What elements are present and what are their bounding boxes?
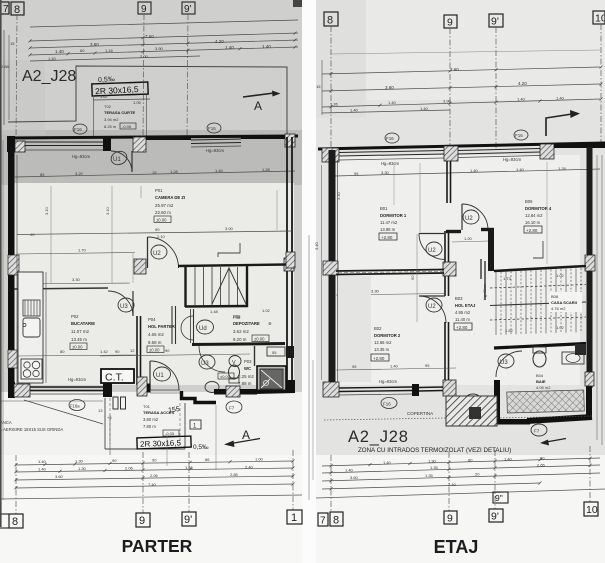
stairs bottom wall <box>494 344 586 349</box>
svg-text:60: 60 <box>80 48 85 53</box>
svg-text:1.26: 1.26 <box>330 102 339 107</box>
canopy hatched square <box>446 396 497 426</box>
svg-text:2.00: 2.00 <box>140 54 149 59</box>
svg-text:1.40: 1.40 <box>350 108 359 113</box>
living dim line 1.70 <box>17 253 135 255</box>
door U2 D2 leaf/arc <box>419 295 445 297</box>
partition D1/D4 <box>446 161 448 203</box>
svg-text:B08: B08 <box>551 294 559 299</box>
flag box 1 <box>190 420 201 429</box>
grid line 9' dashed <box>495 27 497 150</box>
svg-text:P05: P05 <box>233 314 241 319</box>
kitchen counter outline <box>18 272 43 383</box>
level box -0.05 <box>163 430 179 436</box>
svg-text:9': 9' <box>184 4 192 15</box>
shower cabin <box>257 366 286 392</box>
svg-text:2.40: 2.40 <box>245 465 254 470</box>
left wall hatched pier lower <box>8 350 19 368</box>
hatched pier stairwall left <box>134 259 146 274</box>
svg-text:2.06: 2.06 <box>150 473 159 478</box>
section arrow bottom etaj <box>546 439 566 443</box>
svg-text:1.28: 1.28 <box>262 167 271 172</box>
storage wall vertical <box>193 309 195 343</box>
svg-text:4.76 m2: 4.76 m2 <box>551 306 566 311</box>
svg-text:2.10: 2.10 <box>157 234 166 239</box>
svg-text:4.20: 4.20 <box>518 81 527 86</box>
terrace roof outline <box>8 66 287 137</box>
stair dashed rail <box>490 285 586 289</box>
kitchen-hall wall <box>136 316 138 385</box>
right scan top lighter <box>316 0 605 100</box>
svg-text:3.40: 3.40 <box>336 191 341 200</box>
svg-text:4.95 m2: 4.95 m2 <box>455 310 471 315</box>
dim marks near terrace <box>0 400 103 402</box>
leader line text ANCA <box>24 400 103 424</box>
flue bracket in living <box>218 243 240 257</box>
svg-text:HOL ETAJ: HOL ETAJ <box>455 303 476 308</box>
F16 marker mid-top <box>207 123 221 133</box>
svg-text:U3: U3 <box>500 360 508 366</box>
right wall bath <box>586 386 592 418</box>
living faint dim verticals <box>50 186 52 283</box>
dim 3.30 D2 <box>336 294 445 296</box>
svg-text:±0.00: ±0.00 <box>156 218 167 223</box>
grid marker 9' top <box>489 14 503 27</box>
left margin dim line etaj <box>308 235 310 500</box>
window band bottom <box>339 387 412 388</box>
left scan sheet <box>0 0 302 522</box>
terrace door sill <box>150 389 180 391</box>
svg-text:BUCATARIE: BUCATARIE <box>71 321 95 326</box>
grid line 9 vertical dashed <box>143 14 144 137</box>
dim line above wall <box>336 368 456 370</box>
top dim line 1 <box>30 20 298 27</box>
svg-text:9.58 m: 9.58 m <box>148 340 162 345</box>
svg-text:F16a: F16a <box>70 404 80 409</box>
kitchen top wall <box>14 288 108 289</box>
bottom wall right section <box>527 417 592 421</box>
stove <box>21 359 42 379</box>
door U1 hall leaf/arc <box>149 361 151 390</box>
svg-text:80: 80 <box>60 349 65 354</box>
svg-text:1.00: 1.00 <box>255 457 264 462</box>
svg-text:1.82: 1.82 <box>505 328 514 333</box>
door U1 jamb <box>103 137 111 151</box>
hatched pier right of CT <box>137 377 147 396</box>
bath walls bottom <box>494 380 500 424</box>
svg-text:15: 15 <box>152 170 157 175</box>
svg-text:1.40: 1.40 <box>55 49 64 54</box>
svg-text:3.94 m2: 3.94 m2 <box>104 117 119 122</box>
hatched pier left corner <box>322 148 339 162</box>
wall segment to right edge <box>554 144 605 148</box>
svg-text:1.02: 1.02 <box>556 273 565 278</box>
marker F16a <box>69 400 85 411</box>
svg-text:CAMERA DE ZI: CAMERA DE ZI <box>155 195 185 200</box>
svg-text:0,5‰: 0,5‰ <box>193 444 209 451</box>
svg-text:16.10 m: 16.10 m <box>525 220 541 225</box>
svg-text:DEPOZITARE: DEPOZITARE <box>233 321 260 326</box>
svg-text:1.40: 1.40 <box>516 167 525 172</box>
section arrow top right <box>546 114 572 136</box>
right bottom white <box>316 455 605 563</box>
svg-text:1.70: 1.70 <box>78 248 87 253</box>
wc sink <box>205 382 219 393</box>
wall corner left <box>7 136 15 152</box>
wall segment right of terrace <box>214 389 228 395</box>
svg-text:12.84 m2: 12.84 m2 <box>525 213 543 218</box>
door marker U3 wc <box>199 355 215 369</box>
svg-text:1.40: 1.40 <box>390 364 399 369</box>
window band 2 <box>419 386 443 389</box>
svg-text:15: 15 <box>10 41 15 46</box>
svg-text:1.28: 1.28 <box>170 169 179 174</box>
svg-text:9': 9' <box>491 16 499 28</box>
svg-text:8: 8 <box>333 515 339 527</box>
svg-text:3.00: 3.00 <box>225 226 234 231</box>
hatched pier mid <box>444 146 458 161</box>
svg-text:+2.80: +2.80 <box>456 325 468 330</box>
svg-text:+2.80: +2.80 <box>526 228 538 233</box>
svg-text:8: 8 <box>327 15 333 27</box>
stair arrow diagonals <box>212 268 246 304</box>
hatched pier right bath <box>585 372 594 386</box>
svg-text:3.90: 3.90 <box>155 46 164 51</box>
hatched pier <box>14 384 30 397</box>
tap <box>23 324 26 327</box>
svg-text:PARTER: PARTER <box>122 536 193 556</box>
svg-text:1.02: 1.02 <box>262 308 271 313</box>
svg-text:1.05: 1.05 <box>133 100 142 105</box>
hall dim vertical <box>416 234 418 322</box>
right scan crease darker <box>316 0 366 118</box>
wall segment to corner <box>240 389 257 395</box>
door U2 top leaf/arc <box>461 204 463 230</box>
svg-text:9': 9' <box>184 514 192 526</box>
svg-text:B06: B06 <box>525 199 533 204</box>
svg-text:DORMITOR 2: DORMITOR 2 <box>374 333 401 338</box>
svg-text:ZONA CU INTRADOS TERMOIZOLAT (: ZONA CU INTRADOS TERMOIZOLAT (VEZI DETAL… <box>358 447 511 454</box>
door marker U3 kitchen <box>118 298 134 312</box>
door marker U2 D2 <box>426 298 442 312</box>
svg-text:12.66 m2: 12.66 m2 <box>374 340 392 345</box>
svg-text:U2: U2 <box>428 304 436 310</box>
wall step terrace right <box>182 391 217 403</box>
svg-text:9: 9 <box>447 513 453 525</box>
svg-text:9: 9 <box>447 17 453 29</box>
svg-text:90: 90 <box>165 348 170 353</box>
counter inner edge <box>45 272 47 383</box>
door marker U2 top <box>463 210 479 224</box>
dim line 5 long <box>0 495 302 499</box>
svg-text:25.97 m2: 25.97 m2 <box>155 203 174 208</box>
svg-text:ETAJ: ETAJ <box>434 537 479 557</box>
svg-text:B02: B02 <box>374 326 382 331</box>
svg-text:1.42: 1.42 <box>100 349 109 354</box>
door U2 D1 leaf/arc <box>419 233 445 235</box>
washbasin etaj <box>562 352 584 364</box>
svg-text:20: 20 <box>475 472 480 477</box>
svg-text:U2: U2 <box>153 251 161 257</box>
hall dim line <box>100 354 250 356</box>
hatched pier left mid <box>323 261 338 275</box>
left bottom white <box>0 392 302 563</box>
svg-text:3.60: 3.60 <box>90 42 99 47</box>
top dim 3.60 4.20 <box>322 84 600 91</box>
svg-text:90: 90 <box>410 275 415 280</box>
left margin tick stack <box>3 30 5 125</box>
svg-text:90: 90 <box>155 227 160 232</box>
interior dim line <box>335 169 600 176</box>
C.T. box <box>101 369 134 383</box>
grid line 8 dashed <box>330 26 332 150</box>
pier solid <box>412 384 419 396</box>
svg-text:7.60: 7.60 <box>145 34 154 39</box>
svg-text:+2.80: +2.80 <box>373 356 385 361</box>
hatched pier mid <box>133 137 146 152</box>
svg-text:55: 55 <box>272 350 277 355</box>
svg-text:Hg=93cm: Hg=93cm <box>68 377 87 382</box>
svg-text:A: A <box>254 99 262 113</box>
hatched pier right mid <box>284 258 294 271</box>
grid marker 9 bottom <box>136 513 150 527</box>
svg-text:Hg=93cm: Hg=93cm <box>206 148 225 153</box>
window marker F16 <box>73 124 87 134</box>
wc door arc U3 <box>199 346 225 372</box>
window band left <box>25 141 103 143</box>
svg-text:-0.06: -0.06 <box>122 124 132 129</box>
svg-text:P02: P02 <box>71 314 79 319</box>
svg-text:3.60: 3.60 <box>350 475 359 480</box>
cabinet right of storage <box>267 347 285 356</box>
dim ticks etaj <box>330 464 333 467</box>
hatched pier corner <box>323 382 339 397</box>
grid marker 10 partial top right <box>293 0 302 7</box>
svg-text:CASA SCARII: CASA SCARII <box>551 300 577 305</box>
svg-text:+2.80: +2.80 <box>381 235 393 240</box>
marker F7 parter <box>226 401 242 413</box>
dim line 3 <box>15 476 293 480</box>
svg-text:U2: U2 <box>465 216 473 222</box>
wc/shower divider wall <box>254 346 256 366</box>
wall hall/D1 vertical <box>444 231 446 264</box>
window band right <box>458 149 540 151</box>
svg-text:F16: F16 <box>74 127 82 132</box>
wall hall/stairs vertical <box>488 229 494 271</box>
svg-text:TERASA CURTE: TERASA CURTE <box>104 110 136 115</box>
svg-text:1.40: 1.40 <box>556 96 565 101</box>
grid marker 9' <box>182 2 195 14</box>
svg-text:80: 80 <box>468 458 473 463</box>
grid marker 9' bottom <box>182 512 196 526</box>
scan shading top-left <box>0 60 45 135</box>
svg-text:F7: F7 <box>229 406 235 411</box>
svg-text:1.40: 1.40 <box>388 100 397 105</box>
marker F16 bottom <box>381 398 397 409</box>
grid marker 8 bottom <box>9 514 23 528</box>
dim vertical stubs bottom <box>166 436 168 466</box>
kitchen dim line <box>17 355 137 356</box>
svg-text:B01: B01 <box>380 206 388 211</box>
svg-text:9': 9' <box>491 511 499 523</box>
svg-text:3.62 m2: 3.62 m2 <box>233 329 249 334</box>
marker F8 <box>465 394 481 406</box>
svg-text:3.25 m2: 3.25 m2 <box>238 374 254 379</box>
toilet wc <box>229 365 240 379</box>
svg-text:3.30: 3.30 <box>72 277 81 282</box>
right rooms whitish <box>330 155 580 385</box>
stairs top wall etaj <box>494 266 586 271</box>
top dim line faint <box>330 50 600 54</box>
svg-text:F16: F16 <box>515 133 523 138</box>
svg-text:2.88: 2.88 <box>1 64 10 69</box>
svg-text:4.65 m2: 4.65 m2 <box>148 332 164 337</box>
svg-text:L AERISIRE 15X15 SUS GRINDA: L AERISIRE 15X15 SUS GRINDA <box>0 427 63 432</box>
wall elbow hall top <box>446 230 461 233</box>
svg-text:13.45 m: 13.45 m <box>71 337 87 342</box>
grid line 10 dashed <box>600 24 602 148</box>
grid marker 9'' small <box>493 492 508 503</box>
svg-text:T01: T01 <box>143 404 151 409</box>
grid marker 7 top-left <box>0 2 24 15</box>
storage bottom wall <box>192 344 285 345</box>
svg-text:U3: U3 <box>120 304 128 310</box>
svg-text:3.60: 3.60 <box>385 85 394 90</box>
stair mid landing line <box>490 302 586 306</box>
double door storage arcs <box>181 316 193 340</box>
svg-text:11.07 m2: 11.07 m2 <box>71 329 90 334</box>
right wall black segment <box>286 346 294 358</box>
svg-text:7: 7 <box>320 516 326 527</box>
right wall stairs/bath section <box>587 271 593 388</box>
marker F7 etaj <box>531 424 547 436</box>
svg-text:1.40: 1.40 <box>262 44 271 49</box>
svg-text:1.20: 1.20 <box>464 236 473 241</box>
svg-text:P01: P01 <box>155 188 163 193</box>
svg-text:1.40: 1.40 <box>470 168 479 173</box>
door marker U2 D1 <box>426 242 442 256</box>
svg-text:F7: F7 <box>534 429 540 434</box>
svg-text:1: 1 <box>291 512 297 524</box>
handwritten box 2R 30x16,5 bottom <box>137 436 191 449</box>
copertina dotted lines <box>324 418 446 420</box>
svg-text:⑧: ⑧ <box>268 321 272 326</box>
svg-text:11.47 m2: 11.47 m2 <box>380 220 398 225</box>
svg-text:Hg=93cm: Hg=93cm <box>72 154 91 159</box>
svg-text:3.30: 3.30 <box>381 170 390 175</box>
svg-text:3.20: 3.20 <box>75 171 84 176</box>
grid line 9' vertical dashed <box>187 14 188 137</box>
svg-text:1.28: 1.28 <box>558 166 567 171</box>
svg-text:-0.05: -0.05 <box>165 431 175 436</box>
svg-text:1.40: 1.40 <box>38 467 47 472</box>
top dim line 7.60 <box>30 33 298 41</box>
svg-text:13: 13 <box>98 408 103 413</box>
grid marker 9 <box>138 2 151 14</box>
niche wall hall right <box>171 306 173 344</box>
drainer grid <box>23 300 40 316</box>
top dim line 4 <box>30 56 200 61</box>
svg-text:Hg=93cm: Hg=93cm <box>379 379 398 384</box>
sheet left edge <box>0 0 2 527</box>
svg-text:10: 10 <box>595 13 605 25</box>
svg-text:10: 10 <box>586 504 598 516</box>
top dim line 1.40s <box>30 47 298 55</box>
svg-text:F16: F16 <box>386 136 394 141</box>
svg-text:1.40: 1.40 <box>420 106 429 111</box>
svg-text:1.35: 1.35 <box>430 465 439 470</box>
grid marker 10 top <box>593 11 605 24</box>
living dim line <box>17 231 292 235</box>
svg-text:T02: T02 <box>104 104 112 109</box>
svg-text:13.35 m: 13.35 m <box>374 347 390 352</box>
grid line 8 vertical dashed <box>16 14 17 137</box>
stair entry wall <box>481 259 485 300</box>
grid marker 9 top <box>444 15 457 28</box>
grid stubs bottom etaj <box>330 455 332 512</box>
svg-text:40: 40 <box>30 232 35 237</box>
door U3 kitchen arc <box>108 291 133 316</box>
bottom dim lines etaj <box>322 458 600 466</box>
wall left corner <box>8 382 15 398</box>
svg-text:22.60 m: 22.60 m <box>155 210 171 215</box>
level box -0.06 <box>120 123 136 129</box>
svg-text:1.73: 1.73 <box>503 276 512 281</box>
stair treads <box>195 267 238 305</box>
label casa scarii <box>549 292 582 312</box>
svg-text:C.T.: C.T. <box>105 372 124 384</box>
svg-text:DORMITOR 1: DORMITOR 1 <box>380 213 407 218</box>
svg-text:9: 9 <box>141 4 147 15</box>
svg-text:±0.00: ±0.00 <box>220 374 231 379</box>
wall hall/D2 vertical <box>444 276 446 296</box>
interior dim line under top wall <box>15 171 295 177</box>
handwritten box 2R 30x16,5 <box>92 82 148 96</box>
etaj inner left margin dim <box>321 165 323 380</box>
door U2 living leaf <box>147 237 149 268</box>
grid marker 10 bottom etaj <box>584 502 598 516</box>
svg-text:2.85: 2.85 <box>230 472 239 477</box>
left sheet edge dim <box>2 140 4 500</box>
hatched pier right <box>285 134 295 147</box>
door marker U3 bath <box>498 354 514 368</box>
stair box walls <box>178 265 287 267</box>
svg-text:3.60: 3.60 <box>55 474 64 479</box>
svg-text:1.16: 1.16 <box>105 48 114 53</box>
pier solid <box>103 383 112 397</box>
bath tiled floor <box>507 390 585 413</box>
right margin dim lines <box>596 155 598 440</box>
hatched pier right mid <box>585 255 595 271</box>
svg-text:Hg=93cm: Hg=93cm <box>381 161 400 166</box>
terrace posts <box>113 397 118 409</box>
svg-text:B04: B04 <box>536 373 544 378</box>
marker V <box>229 356 241 367</box>
dim ticks <box>15 463 18 466</box>
D2 wash column <box>338 276 371 382</box>
terrace outline <box>104 398 106 449</box>
top dim line 3.60/4.20 <box>30 40 298 48</box>
svg-text:85: 85 <box>40 172 45 177</box>
section arrow A top <box>243 93 274 97</box>
svg-text:A2_J28: A2_J28 <box>22 68 76 85</box>
svg-text:15: 15 <box>316 84 321 89</box>
svg-text:Hg=90cm: Hg=90cm <box>483 284 487 300</box>
grid marker 9 bottom etaj <box>444 511 457 524</box>
hatched pier <box>15 141 25 152</box>
svg-text:1.40: 1.40 <box>48 56 57 61</box>
svg-text:2.65: 2.65 <box>537 463 546 468</box>
